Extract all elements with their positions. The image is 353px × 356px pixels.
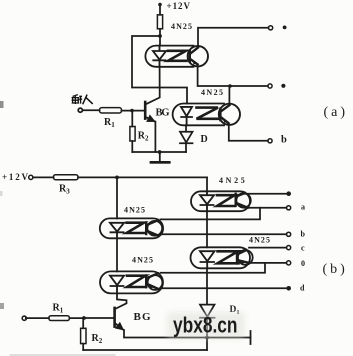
- svg-text:BG: BG: [156, 108, 170, 119]
- terminal d (filled): [286, 286, 291, 291]
- light arrows Z of U2: [197, 108, 219, 119]
- light arrows Z of U6: [218, 251, 239, 263]
- input label shuru: [72, 95, 92, 104]
- svg-text:c: c: [301, 244, 305, 253]
- scan artifact marks: [0, 101, 4, 108]
- wire U1 emitter to terminal row2: [198, 66, 268, 86]
- svg-text:+12V: +12V: [2, 172, 29, 182]
- wire resistor to node A: [159, 29, 161, 46]
- svg-text:b: b: [281, 135, 287, 146]
- phototransistor circle U1: [188, 46, 208, 66]
- wire LED column U3 to U4: [116, 238, 118, 271]
- svg-text:R2: R2: [92, 333, 103, 345]
- terminal mid (row2): [268, 84, 272, 88]
- resistor R2 (b): [82, 318, 84, 328]
- optocoupler U3 pill body: [100, 218, 163, 238]
- node A junction dot: [158, 34, 162, 38]
- terminal a (b): [287, 206, 291, 210]
- LED of U5: [200, 191, 214, 211]
- svg-text:4N25: 4N25: [201, 88, 223, 97]
- optocoupler U6 pill body: [191, 247, 251, 268]
- wire R2 top (a): [131, 111, 133, 127]
- svg-text:b: b: [301, 229, 306, 238]
- input terminal circle (a): [78, 108, 82, 112]
- label dot row2: [281, 84, 285, 88]
- resistor R1 (b): [49, 316, 70, 321]
- rail junction dot (b): [115, 176, 119, 180]
- ground symbol (a): [159, 152, 161, 161]
- wire U6 emitter to terminal row o: [250, 262, 286, 264]
- terminal a (row1): [269, 26, 273, 30]
- wire +12V to resistor (a): [159, 6, 161, 15]
- svg-text:+12V: +12V: [167, 1, 191, 11]
- optocoupler U4 pill body: [100, 271, 163, 293]
- phototransistor circle U5: [236, 193, 250, 207]
- svg-text:a: a: [301, 202, 305, 211]
- gnd rail junction dot (a): [158, 150, 162, 154]
- svg-text:4N25: 4N25: [132, 256, 153, 265]
- wire U5 emitter to terminal row2b: [245, 207, 287, 209]
- bottom rail (b): [83, 349, 207, 351]
- terminal o (b): [287, 261, 291, 265]
- wire U3 emitter to terminal row3b: [161, 233, 287, 235]
- LED of U6: [200, 251, 215, 268]
- watermark halo: [167, 312, 245, 339]
- svg-text:(b): (b): [323, 262, 348, 277]
- input terminal circle (b): [22, 316, 26, 320]
- wire U4 emitter to terminal row d: [161, 287, 287, 289]
- wire U3 collector row joins U5 emitter: [161, 208, 261, 220]
- wire LED column U5 to U6: [206, 211, 208, 247]
- +12V terminal dot (a): [158, 3, 162, 7]
- phototransistor circle U6: [238, 250, 253, 265]
- wire rail down to U5 LED: [206, 177, 208, 191]
- label mark row1: [283, 26, 287, 30]
- resistor R1 (a): [100, 108, 122, 113]
- wire U4 LED to BG(b) collector with jog: [116, 293, 127, 308]
- light arrows Z of U3: [127, 223, 145, 233]
- +12V terminal circle (b): [29, 175, 33, 179]
- light arrows Z of U1: [168, 51, 187, 61]
- optocoupler U2 pill body: [173, 104, 224, 126]
- svg-text:4N25: 4N25: [171, 22, 192, 31]
- wire U6 collector to terminal row c: [249, 247, 286, 249]
- wire left LED column to U3: [116, 177, 118, 218]
- LED of U1: [153, 46, 166, 67]
- terminal row1b (filled): [286, 191, 291, 196]
- base wire (b): [84, 317, 114, 319]
- wire U4 collector row joins U6 emitter: [161, 263, 266, 273]
- phototransistor symbol U3: [147, 221, 162, 236]
- resistor Ra vertical (a): [157, 15, 162, 29]
- phototransistor symbol U2: [220, 105, 229, 123]
- svg-text:BG: BG: [134, 311, 151, 323]
- svg-text:R1: R1: [104, 117, 115, 129]
- transistor BG (a) bar: [144, 102, 147, 119]
- LED of U3: [110, 223, 124, 239]
- base wire (a): [122, 110, 145, 112]
- rail junction dot at D1: [205, 336, 209, 340]
- wire R1 to base node: [69, 317, 84, 319]
- phototransistor symbol U4: [148, 275, 163, 290]
- svg-text:4N25: 4N25: [249, 236, 270, 245]
- svg-text:4N25: 4N25: [124, 206, 145, 215]
- LED of U4: [110, 276, 124, 294]
- svg-text:D: D: [201, 134, 208, 145]
- svg-text:(a): (a): [324, 105, 349, 120]
- terminal b (b): [287, 232, 291, 236]
- phototransistor symbol U1: [190, 48, 198, 65]
- optocoupler U1 pill body: [145, 46, 193, 67]
- diode D1 (b): [200, 305, 215, 350]
- wire +12V loop to LED2 anode: [132, 36, 187, 104]
- terminal b (row3): [268, 139, 272, 143]
- wire U6 LED down to D1: [206, 268, 208, 304]
- wire LED1 cathode to BG collector: [146, 67, 160, 104]
- wire U2 collector up to row2: [228, 86, 230, 104]
- base node dot (a): [130, 109, 134, 113]
- phototransistor symbol U6: [237, 250, 249, 263]
- wire U5 collector to terminal row1b: [244, 193, 286, 195]
- wire to R3: [33, 176, 54, 178]
- LED of U2: [181, 107, 192, 125]
- base node dot (b): [82, 316, 86, 320]
- diode D (a): [180, 125, 193, 152]
- transistor BG (b) bar: [113, 308, 116, 327]
- resistor R3 (b): [54, 175, 79, 180]
- ground rail (a): [132, 151, 186, 153]
- resistor R2 (a): [130, 127, 135, 142]
- ground tick (b): [250, 331, 252, 344]
- wire input to R1 (a): [83, 109, 100, 111]
- BG(b) emitter with arrow: [116, 324, 123, 330]
- wire U1 collector to terminal row1: [198, 28, 268, 46]
- svg-text:R1: R1: [53, 303, 64, 315]
- svg-text:d: d: [300, 283, 305, 292]
- svg-text:4N25: 4N25: [219, 176, 246, 185]
- svg-text:R2: R2: [138, 131, 149, 143]
- light arrows Z of U4: [127, 276, 146, 287]
- BG emitter (a) with arrow: [146, 117, 154, 121]
- light arrows Z of U5: [217, 195, 235, 206]
- wire U2 emitter to terminal row3: [229, 125, 268, 141]
- +12V rail (b): [78, 176, 207, 178]
- phototransistor circle U2: [219, 104, 240, 125]
- wire R2 bottom to gnd rail (a): [131, 141, 133, 152]
- wire input to R1 (b): [26, 317, 49, 319]
- node U1emitter-U2collector dot: [228, 84, 232, 88]
- terminal c (b): [287, 246, 291, 250]
- svg-text:R3: R3: [59, 184, 70, 196]
- svg-text:0: 0: [301, 259, 305, 268]
- phototransistor symbol U5: [236, 193, 248, 208]
- optocoupler U5 pill body: [191, 191, 250, 211]
- svg-text:ybx8.cn: ybx8.cn: [173, 313, 238, 338]
